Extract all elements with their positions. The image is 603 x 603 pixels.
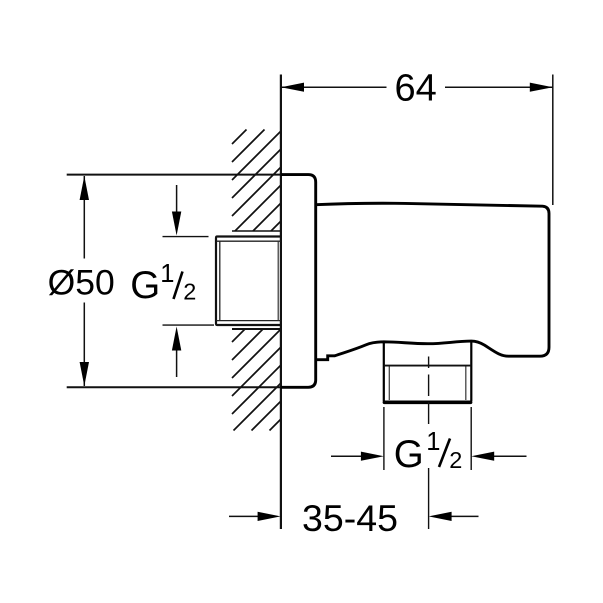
dim 64 right arrow xyxy=(530,83,553,92)
svg-text:G: G xyxy=(394,433,424,476)
wall hole bottom edge xyxy=(232,328,281,330)
svg-text:G: G xyxy=(130,264,160,307)
dim 64 line right segment xyxy=(445,86,553,88)
outlet connector thread chamfer right xyxy=(465,367,467,401)
svg-text:64: 64 xyxy=(395,67,437,109)
outlet centerline dashed xyxy=(428,357,430,425)
dim 35-45 line right segment xyxy=(452,515,479,517)
svg-text:Ø50: Ø50 xyxy=(48,262,115,302)
dim Ø50 line upper segment xyxy=(83,176,85,259)
flange (escutcheon, side view) xyxy=(281,175,316,388)
outlet connector thread chamfer left xyxy=(388,367,390,401)
pipe nipple thread inner line left xyxy=(219,241,221,320)
body outline xyxy=(316,203,549,359)
wall hatching upper section xyxy=(232,130,281,232)
svg-text:35-45: 35-45 xyxy=(302,497,398,539)
outlet connector right side xyxy=(470,341,472,401)
dim Ø50 down arrow xyxy=(80,362,89,386)
label G1/2 left: fraction slash xyxy=(174,272,183,300)
svg-text:1: 1 xyxy=(426,428,440,456)
wall hatching lower section xyxy=(232,329,281,431)
dim G1/2 line right segment xyxy=(494,455,527,457)
dim G1/2 bottom right extension line xyxy=(470,407,472,470)
pipe nipple thread inner line top xyxy=(217,240,281,242)
svg-text:2: 2 xyxy=(449,447,462,473)
dim 35-45 right extension line (outlet centerline) xyxy=(428,468,430,529)
dim G1/2 left arrow pointing right xyxy=(361,452,384,461)
outlet connector left side xyxy=(383,342,385,401)
dim Ø50 bottom extension line xyxy=(67,386,281,388)
in-wall pipe nipple G1/2 outer outline xyxy=(216,237,281,326)
svg-text:2: 2 xyxy=(183,279,196,305)
pipe nipple thread inner line bottom xyxy=(217,320,281,322)
dim Ø50 top extension line xyxy=(67,174,281,176)
dim 64 left arrow xyxy=(281,83,304,92)
outlet connector bottom cap xyxy=(384,400,470,404)
dim Ø50 up arrow xyxy=(80,176,89,200)
dim 35-45 right arrow pointing left xyxy=(429,512,452,521)
pipe nipple end line at wall face xyxy=(277,241,279,320)
dim 64 right extension line xyxy=(552,75,554,206)
dim G1/2 bottom left extension line xyxy=(383,407,385,470)
outlet connector thread top line xyxy=(384,365,472,367)
pipe OD small up arrow xyxy=(176,349,178,377)
dim 64 line left segment xyxy=(281,86,387,88)
wall hole top edge xyxy=(232,230,281,232)
pipe OD small down arrow xyxy=(176,185,178,213)
dim G1/2 line left segment xyxy=(331,455,362,457)
dim Ø50 line lower segment xyxy=(83,303,85,387)
pipe OD top extension line xyxy=(163,236,209,238)
dim 35-45 left arrow pointing right xyxy=(258,512,281,521)
dim G1/2 text: fraction slash xyxy=(439,439,450,468)
dim G1/2 right arrow pointing left xyxy=(471,452,494,461)
wall face line xyxy=(280,75,282,530)
dim 35-45 line left segment xyxy=(229,515,258,517)
svg-text:1: 1 xyxy=(160,260,174,288)
pipe OD bottom extension line xyxy=(163,324,215,326)
